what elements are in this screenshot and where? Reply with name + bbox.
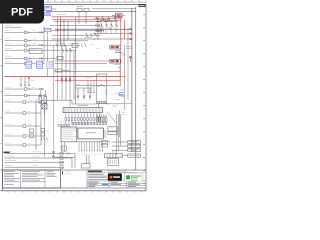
fuse marks on bundle xyxy=(61,78,63,81)
bottom terminal wire 3 xyxy=(5,159,16,162)
red vertical center xyxy=(75,17,77,104)
device box on row xyxy=(29,49,42,54)
left feeder row 9 xyxy=(5,86,12,89)
inner right bus xyxy=(127,29,129,100)
left feeder row 6 xyxy=(5,61,12,64)
contact cluster B xyxy=(101,24,103,28)
notes text col 1 xyxy=(4,170,15,173)
aux relay contacts row xyxy=(97,117,99,122)
blue label right xyxy=(119,92,125,95)
left margin zone marks xyxy=(1,13,2,14)
junction circles pair xyxy=(53,151,55,153)
red bus terminal 1 xyxy=(130,28,133,30)
red branch y20 xyxy=(100,19,121,21)
company logo (black/orange) xyxy=(108,173,122,180)
wire row xyxy=(50,25,100,27)
blue bus labels xyxy=(126,46,131,49)
wire y104 xyxy=(107,103,132,105)
relay K1 coil (red) xyxy=(116,13,123,18)
blue label xyxy=(96,29,100,32)
red feeder wire xyxy=(5,76,121,78)
bottom-left stub xyxy=(55,156,75,158)
label column under drops xyxy=(78,150,80,152)
top bus wire xyxy=(46,11,136,13)
flat divided box xyxy=(105,154,123,158)
wire to F1 xyxy=(110,46,112,48)
controller bottom bus xyxy=(61,141,110,143)
wire row xyxy=(50,30,104,32)
bottom terminal wire 2 xyxy=(5,155,14,158)
row wire extension 1 xyxy=(44,40,88,42)
center component cluster xyxy=(77,8,82,11)
red device F2 xyxy=(110,59,121,63)
title block frame xyxy=(3,169,147,171)
red bus terminal 2 xyxy=(130,33,133,35)
text specks xyxy=(90,43,94,46)
controller main block xyxy=(78,128,103,139)
right bus xyxy=(131,8,133,152)
blue label F1 xyxy=(115,50,120,53)
stack box D xyxy=(108,132,117,135)
red device F1 xyxy=(110,45,121,49)
lower-left feeder row 3 xyxy=(5,123,13,126)
small label boxes xyxy=(102,141,108,144)
vertical x119.6 xyxy=(119,110,121,137)
title rows lower xyxy=(87,182,146,184)
bottom connector box xyxy=(107,159,118,166)
PDF badge xyxy=(0,0,44,24)
notes box xyxy=(3,170,61,188)
red feeder pair b xyxy=(55,63,107,65)
right outputs to bus xyxy=(132,141,137,143)
blue labels DEV1 xyxy=(120,89,124,92)
wire row xyxy=(52,38,96,40)
left feeder row 10 xyxy=(5,92,11,95)
left small cluster xyxy=(30,129,34,132)
contact drop wires xyxy=(100,21,102,34)
red wire drop right xyxy=(120,18,122,45)
drop wires under feeder xyxy=(20,77,22,85)
stack box C xyxy=(108,126,117,131)
wire N xyxy=(52,19,110,21)
output label 4 xyxy=(123,155,128,157)
left feeder row 2 xyxy=(5,38,10,41)
red feeder wire 2 xyxy=(55,80,120,82)
red bus terminal 3 xyxy=(130,38,133,40)
device box D2 xyxy=(55,69,62,72)
pin connector row xyxy=(65,117,67,120)
device box DEV1 xyxy=(97,74,107,104)
left bottom specks xyxy=(59,145,62,148)
TB1 pin drops xyxy=(65,113,67,118)
fuse F10 xyxy=(39,97,42,104)
left feeder row 1 xyxy=(5,29,11,32)
wire to controller xyxy=(40,99,72,101)
blue label box mid xyxy=(45,28,52,32)
left feeder row 5 xyxy=(5,55,13,58)
bottom terminal wire 1 xyxy=(5,150,12,153)
arrow bundle xyxy=(87,80,89,92)
row wire extension 2 xyxy=(44,44,80,46)
red supply wire L1 xyxy=(52,16,123,18)
mid small cluster xyxy=(41,129,45,132)
output label 2 xyxy=(112,145,128,147)
contact group center xyxy=(86,33,88,37)
terminal strip X3 (blue) xyxy=(26,61,32,68)
notes text col 2 xyxy=(22,170,40,173)
wire drop xyxy=(67,21,69,40)
controller side pins xyxy=(103,130,106,132)
client logo (green) xyxy=(125,174,142,182)
relay coil K3 xyxy=(72,44,78,48)
red feeder wire 3 xyxy=(55,71,118,73)
red link lower xyxy=(76,85,121,87)
bottom vertical pair xyxy=(85,155,87,164)
red wire drop right 2 xyxy=(124,20,126,39)
red link F1-F2 xyxy=(119,49,121,86)
red wire drop x98 xyxy=(97,17,99,40)
blue label F2 xyxy=(114,63,120,66)
terminal strip X5 (blue) xyxy=(47,61,53,68)
schematic right boundary xyxy=(135,7,137,170)
left feeder row 4 xyxy=(5,47,12,50)
bottom terminal wire 4 xyxy=(5,164,12,167)
sheet tag box xyxy=(139,4,146,7)
controller left block xyxy=(61,127,77,142)
header rows above logos xyxy=(107,170,109,173)
left feeder row 3 xyxy=(5,42,11,45)
junction dots xyxy=(57,30,58,31)
center cluster circles xyxy=(75,87,92,89)
wire jog above strip xyxy=(72,103,97,105)
DEV1 bottom terminals xyxy=(98,101,100,103)
red horizontal mid xyxy=(93,33,132,35)
center vertical wires xyxy=(61,42,63,100)
red supply wire L2 xyxy=(54,20,118,22)
svg-text:PDF: PDF xyxy=(11,7,33,19)
sheet border frame xyxy=(0,1,146,3)
upper pin row 2 xyxy=(72,122,74,125)
wire row xyxy=(52,34,100,36)
right output verticals xyxy=(116,114,118,155)
contact cluster A xyxy=(96,17,98,21)
connector feed wires xyxy=(109,153,111,159)
transformer box X xyxy=(42,104,47,109)
output label 3 xyxy=(112,149,128,151)
right secondary bus xyxy=(124,45,126,110)
lower-left feeder row 2 xyxy=(5,110,11,113)
left mini cluster xyxy=(58,124,60,126)
lower-left verticals xyxy=(35,100,37,150)
contact K4 slashes xyxy=(81,44,82,48)
revision table xyxy=(88,171,102,173)
right red stubs xyxy=(118,67,120,69)
output label 1 xyxy=(112,141,128,143)
wire drop xyxy=(63,20,65,47)
terminal strip TB1 xyxy=(63,108,103,113)
lower-left feeder row 4 xyxy=(5,133,11,136)
controller drop wires xyxy=(78,142,80,150)
contact K2 slashes xyxy=(56,43,57,47)
wire drop xyxy=(57,17,59,100)
row wire extension 3 xyxy=(44,49,76,51)
red bus terminal 4 xyxy=(129,56,132,58)
approval column xyxy=(60,170,62,188)
small box mid xyxy=(62,146,66,151)
top gray wire xyxy=(92,8,136,10)
red wire drop xyxy=(60,17,62,44)
notes text col 3 xyxy=(47,170,54,173)
terminal X2 (blue) xyxy=(45,13,51,16)
stub row under badge xyxy=(5,24,13,27)
bottom small box xyxy=(81,164,90,168)
lower-left feeder row 5 xyxy=(5,142,11,145)
terminal strip X4 (blue) xyxy=(37,61,43,68)
dark red wire xyxy=(55,28,132,30)
slanted wire xyxy=(107,112,112,118)
red feeder pair a xyxy=(55,60,110,62)
bold cable mark xyxy=(4,152,10,153)
lower-left feeder row 1 xyxy=(5,99,11,102)
device box D1 xyxy=(57,57,63,60)
left bus verticals xyxy=(43,27,45,65)
terminal X1 (blue) xyxy=(45,6,52,10)
fuse F11 xyxy=(44,97,47,104)
red horizontal lower xyxy=(93,38,132,40)
